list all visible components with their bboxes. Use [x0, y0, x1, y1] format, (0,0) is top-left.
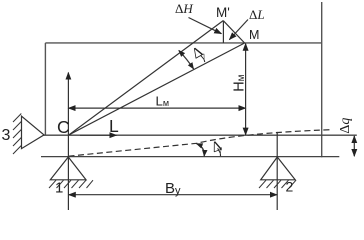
- support 2 axis: [276, 132, 278, 210]
- support 2 hatching: [259, 180, 296, 188]
- wall support 3 triangle: [22, 116, 45, 148]
- svg-text:M: M: [249, 28, 259, 42]
- support 2 triangle: [261, 157, 296, 180]
- support 1 triangle: [50, 157, 86, 180]
- dL pointer arrow: [229, 20, 248, 40]
- dashed tilted rail line: [69, 130, 332, 157]
- svg-text:1: 1: [55, 180, 63, 197]
- girder rectangle top edge: [45, 42, 321, 44]
- Hm dimension line: [245, 44, 247, 135]
- By dimension line: [69, 194, 277, 196]
- wall support 3 hatching: [13, 114, 21, 155]
- dq double arrow: [353, 136, 355, 156]
- girder rectangle left edge: [44, 43, 46, 135]
- support 1 hatching: [49, 180, 93, 188]
- svg-text:Hм: Hм: [232, 74, 248, 91]
- svg-text:Bу: Bу: [165, 180, 181, 197]
- Lm dimension line: [68, 107, 245, 109]
- svg-text:Lм: Lм: [156, 94, 170, 109]
- angle arc at support 1: [196, 144, 204, 157]
- svg-text:Δq: Δq: [338, 118, 353, 134]
- svg-text:C: C: [57, 117, 70, 137]
- right vertical reference line: [321, 2, 323, 157]
- sight line C to M': [69, 21, 223, 135]
- dH pointer arrow: [189, 18, 222, 34]
- svg-text:L: L: [109, 116, 119, 136]
- L arrow on beam: [80, 134, 117, 136]
- vertical drop M': [222, 21, 224, 43]
- svg-text:ΔL: ΔL: [249, 7, 265, 22]
- svg-text:2: 2: [286, 179, 294, 195]
- vertical axis at C with up arrow: [67, 73, 69, 211]
- sight line C to M: [69, 43, 245, 135]
- beam top line: [44, 134, 357, 136]
- svg-text:3: 3: [2, 127, 11, 144]
- svg-text:M': M': [216, 5, 230, 20]
- lower support line: [41, 156, 339, 158]
- svg-text:ΔH: ΔH: [175, 1, 193, 16]
- angle arc at C: [179, 50, 194, 69]
- segment M' to M: [223, 21, 244, 43]
